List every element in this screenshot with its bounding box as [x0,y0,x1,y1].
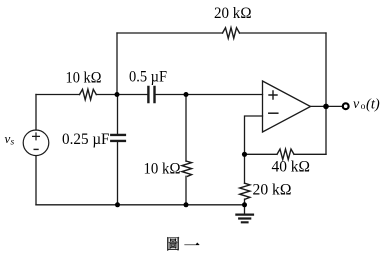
svg-text:10 kΩ: 10 kΩ [66,70,102,87]
svg-text:20 kΩ: 20 kΩ [253,181,292,198]
ground bars [236,215,253,223]
svg-text:v: v [353,97,360,112]
svg-text:20 kΩ: 20 kΩ [214,5,252,22]
capacitor C2 0.25uF plates [111,135,125,141]
wire top rail right segment [240,32,327,34]
capacitor C2 0.25uF branch wire top [117,95,119,135]
op-amp U1 triangle [263,81,311,132]
svg-text:s: s [11,138,15,148]
wire right feedback vertical [325,33,327,106]
op-amp minus input symbol [269,112,278,114]
source vs wire top [35,95,37,131]
svg-text:0.25 µF: 0.25 µF [62,131,110,148]
wire op-amp output [311,105,343,107]
resistor R3 40k zigzag [277,149,294,159]
svg-text:10 kΩ: 10 kΩ [144,160,181,177]
resistor R1 10k zigzag [80,89,97,99]
resistor R4 20k vertical wire top [244,154,246,183]
node dot bottom 10k branch [184,202,189,207]
resistor R4 wire bottom [244,199,246,205]
node dot input right [184,92,189,97]
caption Figure 1 (yi) glyph [184,242,199,245]
source vs minus sign [34,148,38,150]
ground stub [244,205,246,214]
wire 40k to output vertical [294,153,326,155]
wire node A to 40k [245,153,278,155]
svg-text:40 kΩ: 40 kΩ [272,159,311,176]
node dot input left [115,92,120,97]
capacitor C2 branch wire bottom [117,142,119,205]
node dot bottom cap branch [115,202,120,207]
wire capacitor to op-amp [156,94,263,96]
resistor R2 10k vertical zigzag [182,161,192,176]
svg-text:(t): (t) [366,97,380,113]
node dot output [323,104,329,110]
wire inverting input [245,116,263,154]
op-amp plus input symbol [269,91,277,99]
resistor R2 10k vertical branch wire top [185,95,187,162]
source vs wire bottom [35,156,37,205]
caption Figure 1 (tu) glyph [167,237,199,251]
wire bottom rail [36,204,245,206]
wire output down to feedback divider [325,106,327,154]
resistor R4 20k vertical zigzag [240,183,250,199]
node dot bottom ground [242,202,247,207]
resistor R2 wire bottom [185,176,187,205]
capacitor C1 0.5uF plates [148,87,154,102]
wire top rail left segment [117,32,223,34]
resistor R-20k-top zigzag [223,28,240,39]
wire resistor to capacitor [96,94,147,96]
svg-text:0.5 µF: 0.5 µF [129,69,167,86]
wire left feedback vertical [116,33,118,95]
wire main input row [36,94,80,96]
source vs circle [23,130,49,156]
svg-text:o: o [361,102,366,112]
output terminal open circle [343,103,349,109]
source vs plus sign [33,133,40,140]
node dot A feedback divider [242,152,247,157]
